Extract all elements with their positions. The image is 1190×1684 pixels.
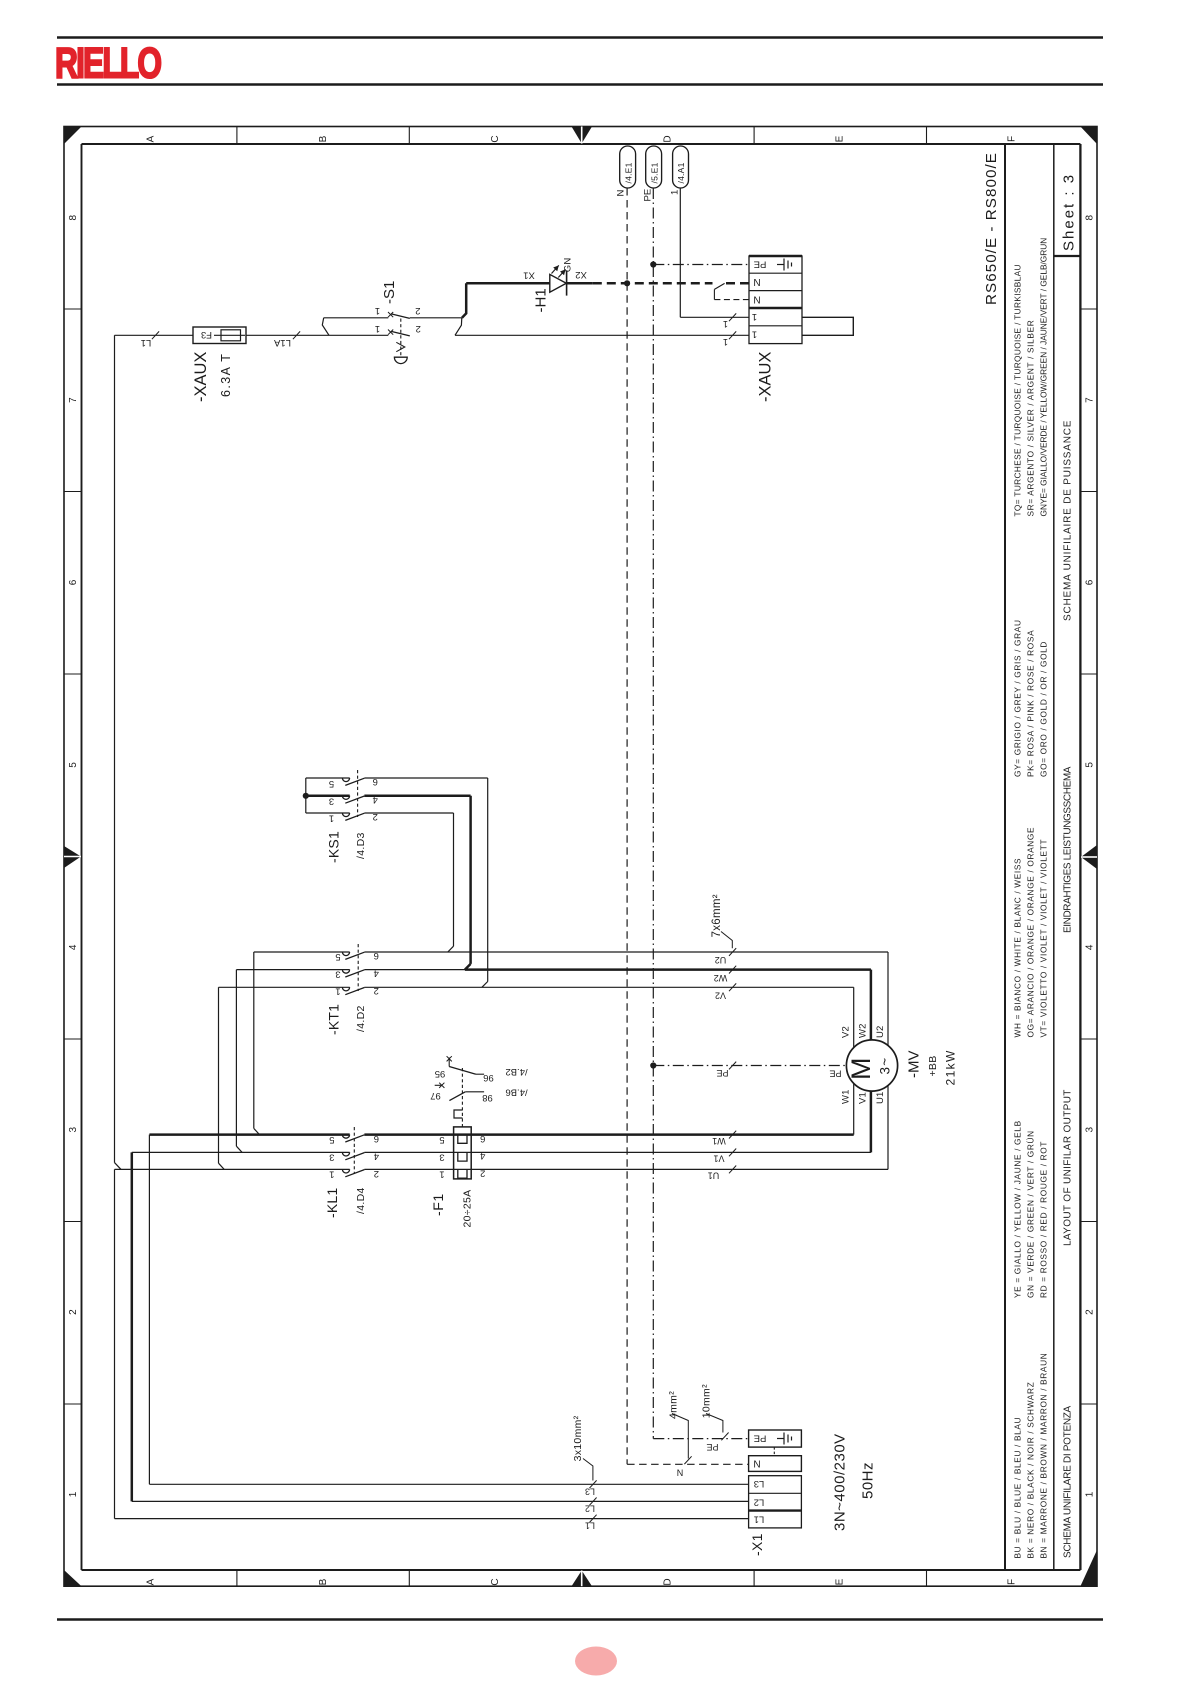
switch S1 outline: [324, 317, 389, 319]
svg-text:PE: PE: [716, 1068, 728, 1078]
svg-text:5: 5: [329, 778, 334, 789]
svg-text:3: 3: [439, 1151, 444, 1162]
svg-text:3~: 3~: [878, 1057, 893, 1075]
wire designation V1: [729, 1149, 736, 1157]
svg-text:1: 1: [375, 305, 380, 316]
svg-text:W1: W1: [841, 1089, 852, 1104]
svg-text:4: 4: [68, 944, 79, 950]
svg-text:2: 2: [374, 1168, 379, 1179]
svg-text:U2: U2: [875, 1025, 886, 1038]
svg-text:1: 1: [375, 323, 380, 334]
svg-text:5: 5: [1084, 762, 1095, 768]
svg-text:7: 7: [68, 397, 79, 403]
svg-text:GO= ORO / GOLD / OR / GOLD: GO= ORO / GOLD / OR / GOLD: [1039, 641, 1049, 777]
svg-text:-KT1: -KT1: [326, 1004, 342, 1035]
svg-text:X1: X1: [523, 270, 535, 281]
contactor KT1 pole 3-4: [236, 969, 349, 971]
svg-text:RS650/E - RS800/E: RS650/E - RS800/E: [983, 152, 1000, 305]
svg-text:WH = BIANCO / WHITE / BLANC /: WH = BIANCO / WHITE / BLANC / WEISS: [1012, 858, 1022, 1038]
neutral link to XAUX terminals: [714, 283, 724, 289]
svg-text:-F1: -F1: [430, 1193, 446, 1216]
svg-text:7x6mm²: 7x6mm²: [711, 894, 723, 937]
XAUX bridge bracket: [802, 317, 853, 335]
wire N into X1: [627, 1463, 749, 1465]
net N vertical (dashed): [626, 188, 628, 283]
svg-text:3x10mm²: 3x10mm²: [572, 1415, 584, 1461]
svg-text:2: 2: [374, 985, 379, 996]
svg-text:8: 8: [68, 214, 79, 220]
switch S1 pole 1-2 lower contact: [388, 330, 393, 335]
svg-text:10mm²: 10mm²: [701, 1384, 713, 1418]
svg-text:5: 5: [439, 1134, 444, 1145]
svg-text:L2: L2: [585, 1504, 595, 1514]
ground (PE) symbol in X1: [777, 1438, 784, 1440]
svg-text:PE: PE: [754, 1432, 767, 1443]
junction on net N: [624, 280, 630, 286]
svg-text:/4.B2: /4.B2: [505, 1066, 527, 1077]
svg-text:A: A: [146, 1578, 157, 1585]
wires phase feeds to KT1: [253, 952, 255, 1128]
svg-text:6: 6: [374, 1133, 379, 1144]
svg-text:/4.A1: /4.A1: [676, 162, 686, 183]
svg-text:20÷25A: 20÷25A: [462, 1190, 474, 1228]
contactor KL1 pole 3-4 row: [132, 1151, 350, 1153]
svg-text:2: 2: [373, 811, 378, 822]
contactor KS1 star bridge wire: [305, 778, 307, 813]
svg-text:PE: PE: [754, 258, 767, 269]
svg-text:3: 3: [1084, 1126, 1095, 1132]
svg-text:N: N: [753, 1457, 760, 1468]
wires L3 L2 L1 into X1: [149, 1483, 748, 1485]
svg-text:5: 5: [335, 951, 340, 962]
svg-text:2: 2: [480, 1167, 485, 1178]
svg-text:U1: U1: [708, 1171, 720, 1181]
svg-text:B: B: [318, 1578, 329, 1585]
contactor KS1 pole 3-4: [306, 795, 350, 798]
svg-text:5: 5: [329, 1134, 334, 1145]
svg-text:V1: V1: [858, 1092, 869, 1104]
wires KS1 to KT1 rows: [487, 778, 489, 982]
svg-text:N: N: [753, 276, 760, 287]
junction PE branch to motor: [650, 1062, 656, 1068]
contactor KS1 pole 5-6: [306, 777, 350, 779]
net PE vertical (dash-dot): [652, 188, 654, 1439]
svg-text:6: 6: [374, 950, 379, 961]
wire designation V2: [729, 983, 736, 991]
svg-text:3: 3: [329, 1151, 334, 1162]
svg-text:-H1: -H1: [533, 288, 550, 312]
contactor KL1 pole 5-6 row: [149, 1133, 349, 1136]
wire PE into X1: [653, 1438, 748, 1440]
motor MV (M 3~): [846, 1040, 897, 1091]
svg-text:3: 3: [68, 1126, 79, 1132]
svg-text:C: C: [490, 1578, 501, 1585]
svg-text:Sheet : 3: Sheet : 3: [1061, 173, 1078, 251]
svg-text:F: F: [1007, 1579, 1018, 1585]
svg-text:V2: V2: [715, 991, 726, 1001]
junction KS1 star point: [303, 793, 309, 799]
svg-text:D: D: [662, 135, 673, 142]
svg-text:X2: X2: [575, 269, 587, 280]
svg-text:3N~400/230V: 3N~400/230V: [832, 1433, 849, 1531]
pink stamp: [575, 1647, 617, 1676]
wire designation L1: [589, 1515, 596, 1523]
wire H1 to neutral: [567, 282, 593, 285]
contactor KT1 pole 1-2: [219, 986, 350, 988]
wire designation U2: [729, 948, 736, 956]
svg-text:8: 8: [1084, 214, 1095, 220]
title block / legend strip: [1004, 144, 1006, 1570]
svg-text:96: 96: [483, 1072, 494, 1083]
svg-text:/4.B6: /4.B6: [505, 1087, 527, 1098]
KS1 mechanical link: [357, 770, 359, 817]
svg-text:50Hz: 50Hz: [860, 1462, 877, 1499]
wires U2 W2 V2 to motor: [887, 952, 889, 1046]
svg-text:E: E: [835, 1578, 846, 1585]
wire designation PE: [729, 1062, 736, 1070]
svg-text:OG= ARANCIO / ORANGE / ORANGE: OG= ARANCIO / ORANGE / ORANGE / ORANGE: [1025, 827, 1035, 1038]
F1 trip link: [461, 1068, 463, 1127]
wire designation L2: [589, 1498, 596, 1506]
svg-text:6: 6: [68, 579, 79, 585]
header rule 2: [57, 83, 1103, 85]
F1 auxiliary contact 97-98: [435, 1084, 441, 1086]
svg-text:BU = BLU / BLUE / BLEU / BLAU: BU = BLU / BLUE / BLEU / BLAU: [1012, 1417, 1022, 1559]
svg-text:YE = GIALLO / YELLOW / JAUNE /: YE = GIALLO / YELLOW / JAUNE / GELB: [1012, 1120, 1022, 1298]
contactor KS1 pole 1-2: [306, 812, 350, 814]
svg-text:1: 1: [752, 311, 757, 322]
terminal block -XAUX (PE N N 1 1): [749, 256, 802, 344]
wire designation L3: [589, 1480, 596, 1488]
svg-text:98: 98: [482, 1092, 493, 1103]
svg-text:PE: PE: [642, 189, 653, 202]
svg-text:L3: L3: [585, 1486, 595, 1496]
svg-text:95: 95: [435, 1068, 446, 1079]
indicator lamp H1 (green LED): [550, 274, 567, 292]
svg-text:/4.D4: /4.D4: [355, 1187, 367, 1214]
svg-text:B: B: [318, 135, 329, 142]
svg-text:-KS1: -KS1: [326, 831, 342, 863]
svg-text:L1: L1: [585, 1521, 595, 1531]
svg-text:PE: PE: [706, 1442, 718, 1452]
svg-text:U2: U2: [715, 955, 727, 965]
terminal block X1 row PE: [749, 1430, 802, 1447]
wire net 1 to XAUX: [679, 188, 681, 317]
terminal block X1 rows L3 L2 L1: [749, 1476, 802, 1528]
svg-text:L1A: L1A: [273, 337, 291, 348]
svg-text:PE: PE: [829, 1068, 841, 1078]
svg-text:2: 2: [68, 1309, 79, 1315]
svg-text:N: N: [677, 1468, 684, 1478]
svg-text:A: A: [146, 135, 157, 142]
svg-text:1: 1: [439, 1169, 444, 1180]
wire designation U1: [729, 1166, 736, 1174]
svg-text:-KL1: -KL1: [324, 1188, 340, 1218]
svg-text:4: 4: [374, 968, 379, 979]
svg-text:E: E: [835, 135, 846, 142]
svg-text:M: M: [846, 1058, 876, 1081]
wire PE to motor: [653, 1065, 846, 1067]
svg-text:1: 1: [329, 1169, 334, 1180]
svg-text:GY= GRIGIO / GREY / GRIS / GRA: GY= GRIGIO / GREY / GRIS / GRAU: [1012, 619, 1022, 777]
wire designation 1 (lower): [729, 331, 736, 339]
svg-text:2: 2: [416, 323, 421, 334]
junction on net PE: [650, 261, 656, 267]
svg-text:1: 1: [723, 337, 728, 347]
footer rule: [57, 1618, 1103, 1620]
wire designation 1: [729, 313, 736, 321]
svg-text:4: 4: [480, 1150, 485, 1161]
svg-text:-X1: -X1: [749, 1533, 765, 1556]
svg-text:W1: W1: [712, 1136, 726, 1146]
S1 mechanical link and handle: [400, 319, 402, 357]
svg-text:PK= ROSA / PINK / ROSE / ROSA: PK= ROSA / PINK / ROSE / ROSA: [1025, 630, 1035, 777]
thermal overload relay F1 20-25A: [454, 1127, 472, 1179]
svg-text:3: 3: [329, 795, 334, 806]
svg-text:GN: GN: [562, 257, 573, 272]
wire L1 rail: [114, 335, 116, 1162]
reference oval N /4.E1, PE /5.E1, 1 /4.A1: [620, 146, 636, 188]
svg-text:TQ= TURCHESE / TURQUOISE / TUR: TQ= TURCHESE / TURQUOISE / TURQUOISE / T…: [1012, 264, 1022, 516]
svg-text:1: 1: [1084, 1491, 1095, 1497]
svg-text:6: 6: [373, 776, 378, 787]
svg-text:-MV: -MV: [906, 1051, 923, 1079]
X1 PE-N link: [773, 1447, 775, 1456]
svg-text:3: 3: [335, 968, 340, 979]
svg-text:L3: L3: [754, 1478, 765, 1489]
svg-text:N: N: [753, 293, 760, 304]
wire to lamp H1: [462, 283, 466, 318]
svg-text:L2: L2: [754, 1496, 765, 1507]
svg-text:EINDRAHTIGES LEISTUNGSSCHEMA: EINDRAHTIGES LEISTUNGSSCHEMA: [1062, 766, 1073, 933]
svg-text:L1: L1: [141, 337, 152, 348]
svg-text:4: 4: [374, 1151, 379, 1162]
svg-text:RIELLO: RIELLO: [55, 38, 161, 87]
wire W2 (heavy): [465, 968, 871, 971]
svg-text:2: 2: [415, 305, 420, 316]
svg-text:1: 1: [335, 986, 340, 997]
wire label L1A: [293, 331, 300, 339]
svg-text:1: 1: [329, 813, 334, 824]
KT1 mechanical link: [357, 944, 359, 991]
svg-text:7: 7: [1084, 397, 1095, 403]
svg-text:C: C: [490, 135, 501, 142]
svg-text:VT= VIOLETTO / VIOLET / VIOLET: VT= VIOLETTO / VIOLET / VIOLET / VIOLETT: [1039, 839, 1049, 1038]
svg-text:/4.E1: /4.E1: [623, 162, 633, 183]
svg-text:1: 1: [669, 190, 680, 195]
svg-text:1: 1: [723, 319, 728, 329]
svg-text:W2: W2: [858, 1023, 869, 1038]
svg-text:6: 6: [1084, 579, 1095, 585]
svg-text:/5.E1: /5.E1: [649, 162, 659, 183]
ground (PE) symbol in XAUX: [777, 264, 784, 266]
svg-text:-S1: -S1: [381, 281, 398, 304]
svg-text:1: 1: [68, 1491, 79, 1497]
svg-text:4: 4: [1084, 944, 1095, 950]
svg-text:BK = NERO / BLACK / NOIR / SCH: BK = NERO / BLACK / NOIR / SCHWARZ: [1025, 1382, 1035, 1559]
svg-text:N: N: [615, 190, 626, 197]
svg-text:L1: L1: [754, 1513, 765, 1524]
terminal block X1 row N: [749, 1456, 802, 1472]
svg-text:D: D: [662, 1578, 673, 1585]
svg-text:SR= ARGENTO / SILVER / ARGENT: SR= ARGENTO / SILVER / ARGENT / SILBER: [1025, 320, 1035, 517]
contactor KL1 pole 1-2 row: [115, 1168, 350, 1170]
svg-text:V1: V1: [713, 1154, 724, 1164]
svg-text:U1: U1: [875, 1091, 886, 1104]
svg-text:V2: V2: [841, 1026, 852, 1038]
svg-text:SCHEMA UNIFILAIRE DE PUISSANCE: SCHEMA UNIFILAIRE DE PUISSANCE: [1062, 420, 1073, 621]
svg-text:97: 97: [430, 1090, 441, 1101]
svg-text:RD = ROSSO / RED / ROUGE / ROT: RD = ROSSO / RED / ROUGE / ROT: [1039, 1141, 1049, 1298]
svg-text:GNYE= GIALLO/VERDE / YELLOW/GR: GNYE= GIALLO/VERDE / YELLOW/GREEN / JAUN…: [1039, 238, 1049, 517]
wires W1 V1 U1 to motor: [853, 1084, 855, 1135]
header rule: [57, 36, 1103, 39]
svg-text:F3: F3: [201, 329, 212, 340]
wires L3 L2 L1 down to X1: [148, 1135, 150, 1485]
svg-text:+BB: +BB: [927, 1055, 939, 1076]
svg-text:4: 4: [373, 794, 378, 805]
KS1 output wires: [364, 777, 487, 779]
svg-text:1: 1: [752, 329, 757, 340]
contactor KT1 pole 5-6: [254, 951, 350, 953]
F1 auxiliary contact 95-96: [448, 1058, 450, 1067]
svg-text:4mm²: 4mm²: [668, 1391, 680, 1419]
svg-text:-XAUX: -XAUX: [192, 352, 210, 402]
svg-text:LAYOUT OF UNIFILAR OUTPUT: LAYOUT OF UNIFILAR OUTPUT: [1062, 1089, 1073, 1246]
svg-text:/4.D3: /4.D3: [355, 832, 367, 859]
wire designation W1: [729, 1131, 736, 1139]
svg-text:BN = MARRONE / BROWN / MARRON: BN = MARRONE / BROWN / MARRON / BRAUN: [1039, 1353, 1049, 1559]
switch S1 pole 1-2 upper contact: [388, 312, 393, 317]
wire L1: [115, 334, 194, 336]
svg-text:W2: W2: [714, 973, 728, 983]
KL1 mechanical link: [353, 1127, 355, 1174]
fuse F3 -XAUX 6.3A T: [193, 327, 246, 344]
svg-text:21kW: 21kW: [944, 1049, 958, 1085]
svg-text:/4.D2: /4.D2: [355, 1005, 367, 1032]
svg-text:6.3A T: 6.3A T: [219, 353, 233, 397]
svg-text:-XAUX: -XAUX: [757, 352, 775, 402]
svg-text:6: 6: [480, 1133, 485, 1144]
svg-text:F: F: [1007, 136, 1018, 142]
svg-text:5: 5: [68, 762, 79, 768]
svg-text:2: 2: [1084, 1309, 1095, 1315]
svg-text:GN = VERDE / GREEN / VERT / GR: GN = VERDE / GREEN / VERT / GRÜN: [1025, 1130, 1035, 1298]
wire label L1: [152, 331, 159, 339]
wire designation W2: [729, 966, 736, 974]
svg-text:SCHEMA UNIFILARE DI POTENZA: SCHEMA UNIFILARE DI POTENZA: [1062, 1405, 1073, 1558]
